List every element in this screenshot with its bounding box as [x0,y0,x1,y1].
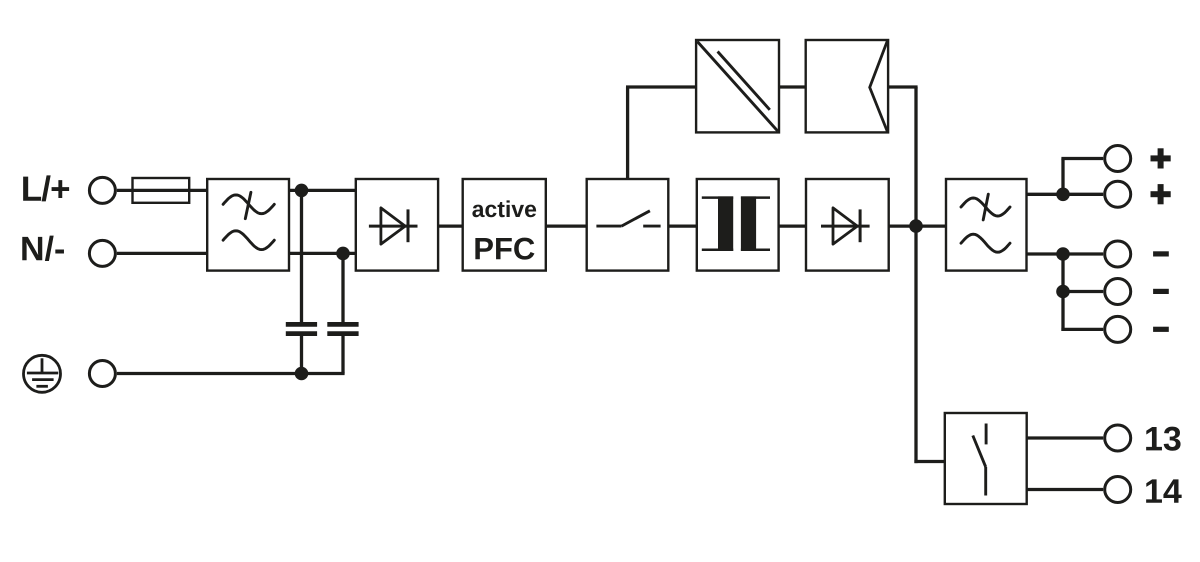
label - [1153,327,1169,332]
wire relay to terminal 14 [1027,488,1104,491]
label - [1153,289,1169,294]
wire relay to terminal 13 [1027,436,1104,439]
node DC bus junction [909,219,923,233]
terminal PE [89,361,115,387]
wire - branch riser 1 [1061,252,1064,291]
node PE / C1 junction [295,367,309,381]
wire diode to output filter [889,224,946,227]
wire PE terminal to capacitor net [117,372,345,375]
fuse F1 [133,178,190,203]
wire filter to rectifier (N) [289,252,356,255]
output diode D1 [806,179,889,271]
terminal + (1) [1105,146,1131,172]
wire C1 lower lead [300,336,303,374]
wire - branch to terminal row 3 [1061,328,1103,331]
wire - branch to terminal row 2 [1063,290,1103,293]
wire top row to feedback box 1 [626,85,696,88]
label L/+ [23,175,69,201]
wire elbow to relay contact box [914,460,944,463]
wire output filter to + terminal row 2 [1027,193,1104,196]
terminal - (3) [1105,316,1131,342]
terminal 13 [1105,425,1131,451]
active PFC block [463,179,546,271]
wire C2 lower lead [341,336,344,374]
capacitor C2 [327,324,358,333]
wire - branch riser 2 [1061,290,1064,331]
switching stage [587,179,669,271]
label + [1151,148,1171,168]
rectifier [356,179,438,271]
transformer T1 [697,179,779,271]
wire + branch riser [1061,159,1064,196]
label 13 [1146,427,1180,451]
wire filter to rectifier (L) [289,189,356,192]
wire switch to transformer [668,224,697,227]
node N after filter [336,247,350,261]
terminal - (1) [1105,241,1131,267]
capacitor C1 [286,324,317,333]
wire transformer to diode [779,224,806,227]
wire PFC to switch [546,224,587,227]
output EMC filter [946,179,1027,271]
terminal + (2) [1105,181,1131,207]
terminal 14 [1105,477,1131,503]
wire C1 upper lead [300,190,303,322]
node L after filter [295,184,309,198]
label - [1153,251,1169,256]
node - branch junction 2 [1056,285,1070,299]
node - branch junction 1 [1056,247,1070,261]
label 14 [1146,479,1182,502]
wire rectifier to PFC [438,224,463,227]
EMC input filter [207,179,289,271]
label + [1151,184,1171,204]
wire N/- terminal to filter [117,252,207,255]
protective earth symbol [24,355,61,392]
wire top box 2 to right riser [888,85,918,88]
wire C2 upper lead [341,253,344,322]
feedback converter box (double slash) [696,40,779,132]
terminal - (2) [1105,279,1131,305]
wire + branch to terminal row 1 [1061,157,1103,160]
wire output filter to - terminal row 1 [1027,252,1104,255]
terminal L/+ [89,177,115,203]
wire right riser (top row to relay elbow) [914,87,917,463]
feedback box with chevron [806,40,888,132]
wire riser from switch box to top feedback row [626,87,629,180]
node + branch junction [1056,188,1070,202]
wire between top boxes [779,85,806,88]
label N/- [22,236,64,261]
terminal N/- [89,240,115,266]
relay contact block 13/14 [945,413,1027,504]
wire L/+ terminal to fuse and filter [117,189,207,192]
